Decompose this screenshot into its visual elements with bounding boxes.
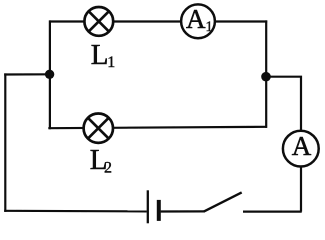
wire: L2 branch horizontal xyxy=(48,127,267,128)
wire: bottom left (to battery) xyxy=(4,210,147,213)
ammeter A1 xyxy=(181,4,215,38)
svg-text:2: 2 xyxy=(104,160,112,177)
switch lever xyxy=(204,192,242,211)
wire: inner-left vertical xyxy=(49,20,51,129)
wire: inner-right vertical xyxy=(265,20,267,128)
svg-text:L: L xyxy=(91,39,109,71)
wire: switch right contact to corner xyxy=(243,211,302,213)
ammeter A xyxy=(283,131,319,167)
wire: outer-left vertical xyxy=(4,73,6,212)
wire: battery to switch xyxy=(161,210,205,212)
lamp L1 xyxy=(84,7,113,36)
battery cell: long plate (+) xyxy=(147,190,149,223)
svg-text:A: A xyxy=(186,4,206,34)
battery cell: short plate (-) xyxy=(157,200,161,221)
wire: left node to outer-left xyxy=(4,73,50,75)
svg-text:A: A xyxy=(292,131,312,161)
node: left junction xyxy=(45,70,54,79)
node: right junction xyxy=(261,72,271,82)
wire: outer-right vertical through ammeter A xyxy=(266,77,301,212)
wire: top branch (L1/A1) xyxy=(50,20,268,22)
svg-text:1: 1 xyxy=(205,19,213,35)
svg-text:1: 1 xyxy=(107,54,115,71)
lamp L2 xyxy=(84,114,113,143)
